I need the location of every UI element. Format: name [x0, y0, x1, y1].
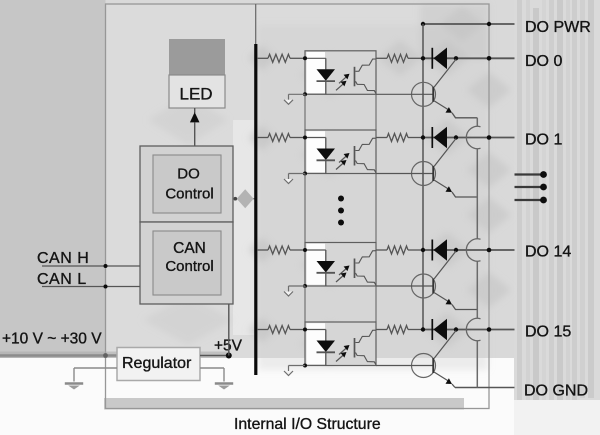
svg-text:DO: DO: [177, 166, 200, 183]
svg-text:DO 0: DO 0: [525, 53, 562, 70]
svg-text:CAN H: CAN H: [37, 250, 89, 267]
svg-text:LED: LED: [180, 85, 213, 104]
svg-text:+10 V ~ +30 V: +10 V ~ +30 V: [2, 331, 102, 348]
svg-text:CAN L: CAN L: [37, 271, 87, 288]
svg-text:Control: Control: [165, 258, 213, 275]
svg-text:DO 15: DO 15: [525, 324, 571, 341]
svg-text:DO GND: DO GND: [524, 383, 588, 400]
svg-text:Control: Control: [165, 186, 213, 203]
svg-text:DO 1: DO 1: [525, 132, 562, 149]
svg-text:Regulator: Regulator: [122, 355, 192, 372]
svg-text:DO PWR: DO PWR: [525, 19, 591, 36]
svg-text:Internal I/O Structure: Internal I/O Structure: [234, 416, 381, 433]
svg-text:CAN: CAN: [173, 240, 206, 257]
svg-text:DO 14: DO 14: [525, 244, 571, 261]
